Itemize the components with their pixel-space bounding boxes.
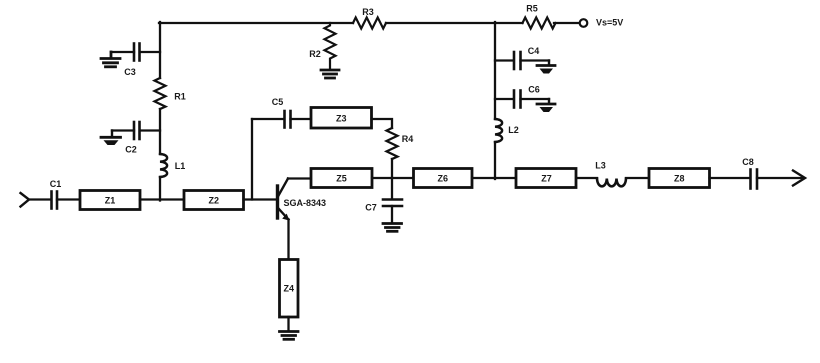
wire Z6 to Z7	[472, 177, 516, 179]
block Z3	[311, 108, 372, 129]
terminal Vs=5V	[580, 18, 624, 28]
wire R4 to node	[391, 159, 393, 178]
svg-text:L2: L2	[508, 125, 519, 135]
ground (R2)	[321, 70, 339, 78]
wire feedback riser	[251, 119, 253, 200]
svg-text:C1: C1	[50, 179, 62, 189]
wire Z8 to C8	[710, 177, 751, 179]
output arrow	[793, 171, 805, 186]
wire L3 to Z8	[626, 177, 649, 179]
svg-text:C2: C2	[125, 145, 137, 155]
svg-text:SGA-8343: SGA-8343	[284, 198, 327, 208]
capacitor C1	[52, 192, 58, 209]
wire left bias bus	[159, 22, 161, 201]
ground (C3)	[101, 52, 120, 67]
resistor R3	[353, 7, 386, 29]
block Z4	[280, 260, 299, 318]
wire right bias bus	[494, 22, 496, 179]
svg-text:L1: L1	[175, 161, 186, 171]
svg-text:C4: C4	[528, 46, 540, 56]
resistor R1	[155, 78, 186, 109]
resistor R2	[309, 23, 335, 69]
svg-text:Vs=5V: Vs=5V	[596, 18, 623, 28]
block Z2	[184, 191, 244, 210]
ground (C2, tilted style)	[101, 131, 121, 146]
svg-text:Z3: Z3	[336, 114, 347, 124]
inductor L2	[495, 119, 519, 142]
svg-text:Z1: Z1	[105, 196, 116, 206]
wire Z4 to ground	[287, 317, 289, 331]
resistor R4	[387, 128, 414, 159]
inductor L1	[160, 154, 185, 177]
svg-text:Z8: Z8	[674, 174, 685, 184]
svg-text:R1: R1	[174, 92, 186, 102]
wire C5 to Z3	[291, 118, 312, 120]
svg-text:C6: C6	[528, 85, 540, 95]
capacitor C4	[495, 46, 549, 69]
svg-text:R5: R5	[526, 4, 538, 14]
svg-text:R4: R4	[402, 134, 414, 144]
capacitor C7	[365, 178, 402, 223]
svg-text:C5: C5	[272, 97, 284, 107]
block Z7	[516, 169, 576, 188]
block Z8	[649, 169, 710, 188]
capacitor C2	[112, 122, 160, 155]
svg-text:Z6: Z6	[437, 174, 448, 184]
block Z6	[414, 169, 473, 188]
wire Z7 to L3	[577, 177, 597, 179]
svg-text:Z5: Z5	[336, 174, 347, 184]
wire collector to Z5	[288, 177, 311, 179]
resistor R5	[523, 4, 556, 29]
ground (Z4)	[280, 332, 299, 340]
svg-text:R2: R2	[309, 49, 321, 59]
capacitor C3	[111, 44, 160, 78]
wire emitter to Z4	[287, 220, 289, 260]
wire input to C1	[29, 198, 50, 200]
wire Z3 to R4	[372, 119, 393, 128]
svg-text:Z2: Z2	[208, 196, 219, 206]
svg-text:C3: C3	[124, 67, 136, 77]
ground (C4, tilted style)	[537, 61, 555, 74]
svg-text:C8: C8	[742, 157, 754, 167]
svg-text:C7: C7	[365, 203, 377, 213]
ground (C7)	[383, 224, 402, 232]
svg-text:Z4: Z4	[283, 284, 294, 294]
wire top rail	[159, 22, 581, 24]
capacitor C8	[742, 157, 757, 189]
block Z1	[80, 191, 140, 210]
wire C8 to output	[757, 177, 803, 179]
wire riser to C5	[252, 118, 283, 120]
ground (C6, tilted style)	[537, 99, 555, 112]
input port	[21, 193, 30, 207]
inductor L3	[595, 161, 626, 187]
svg-text:L3: L3	[595, 161, 606, 171]
wire Z5 to Z6	[372, 177, 414, 179]
block Z5	[311, 169, 372, 188]
svg-text:Z7: Z7	[541, 174, 552, 184]
svg-text:R3: R3	[362, 7, 374, 17]
transistor Q1 SGA-8343	[278, 179, 327, 221]
wire Z1 to Z2	[140, 198, 184, 200]
capacitor C5	[272, 97, 291, 128]
wire C1 to Z1	[57, 198, 80, 200]
wire Z2 to base	[244, 198, 277, 200]
capacitor C6	[495, 85, 549, 108]
